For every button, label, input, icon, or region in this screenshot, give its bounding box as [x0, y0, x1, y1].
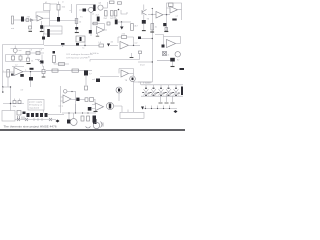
transistor Q9 — [84, 70, 88, 75]
capacitor C4 — [75, 27, 78, 30]
node H — [152, 61, 153, 62]
wire — [79, 9, 88, 11]
tick marks — [34, 118, 42, 121]
feedback wire U3 — [167, 3, 182, 10]
wire — [129, 44, 141, 46]
capacitor C9 — [115, 20, 118, 25]
capacitor C23 — [85, 86, 88, 90]
resistor R7 — [93, 22, 97, 25]
wire — [43, 110, 45, 113]
resistor R11 — [53, 56, 56, 63]
wire — [71, 4, 73, 13]
node M — [71, 91, 72, 92]
component row dark — [27, 113, 48, 117]
left box — [2, 111, 15, 122]
text box note — [28, 100, 44, 111]
wire — [118, 93, 120, 101]
wire vertical x152 — [151, 8, 153, 82]
transistor mark — [118, 89, 120, 92]
node C — [152, 14, 153, 15]
inductor L4 — [99, 44, 104, 47]
wire — [43, 66, 45, 77]
wire — [30, 72, 32, 87]
pin ticks — [146, 106, 170, 109]
capacitor C17 — [76, 43, 79, 46]
op-amp U1 — [97, 27, 105, 34]
wire — [2, 87, 4, 92]
svg-text:DIY theremin v2 LP99: DIY theremin v2 LP99 — [67, 57, 89, 60]
transistor Q15 — [142, 10, 147, 16]
transistor Q13 — [67, 120, 71, 124]
transistor Q4 — [142, 20, 146, 24]
wire — [107, 2, 109, 8]
wire — [114, 106, 122, 112]
capacitor C24 dark — [93, 119, 97, 124]
wire — [118, 21, 131, 23]
wire y59.5 — [90, 54, 140, 62]
feedback wire U6 — [12, 66, 24, 68]
wire — [14, 19, 22, 21]
capacitor C13 — [19, 56, 22, 60]
ground — [75, 32, 79, 34]
wire — [148, 14, 156, 16]
resistor R17 — [114, 11, 117, 17]
wire — [157, 60, 173, 66]
label box — [90, 98, 94, 102]
wire — [69, 113, 74, 120]
pin dots — [145, 108, 146, 109]
wire — [90, 12, 92, 36]
capacitor C12 — [12, 56, 15, 60]
small comp — [17, 111, 21, 116]
capacitor C8 — [97, 17, 100, 22]
ground — [171, 66, 175, 68]
transistor Q5 — [40, 61, 44, 64]
capacitor C20 — [162, 45, 165, 48]
component X2 — [163, 52, 167, 56]
transistor Q8 — [29, 77, 33, 81]
transistor Q6 circle — [175, 52, 180, 57]
node B — [121, 21, 122, 22]
resistor R1 — [26, 19, 29, 22]
capacitor C3 — [57, 17, 60, 22]
capacitor C22 — [30, 68, 34, 70]
resistor R4 — [75, 19, 78, 24]
node dot1 — [68, 112, 69, 113]
wire — [41, 55, 43, 63]
diode D3 — [96, 79, 100, 83]
wire — [67, 90, 76, 92]
op-amp U2 — [156, 12, 163, 19]
resistor R5 — [105, 11, 108, 17]
node J — [2, 86, 3, 87]
capacitor C10 — [163, 23, 166, 26]
speaker circle — [93, 122, 99, 128]
osc rail bottom — [6, 61, 27, 63]
resistor R6 — [111, 11, 114, 17]
wire — [58, 2, 60, 5]
svg-text:9V battery x2: 9V battery x2 — [29, 104, 43, 107]
ground — [130, 57, 134, 59]
node E — [84, 45, 85, 46]
wire — [92, 105, 96, 109]
shield box left osc — [44, 26, 62, 34]
ground T3 — [171, 102, 175, 104]
diode cell 1 — [142, 85, 150, 96]
wire — [11, 99, 20, 111]
dark label OUT — [180, 68, 185, 70]
box bottom right — [120, 112, 144, 118]
wire — [41, 21, 43, 31]
dark block — [93, 116, 97, 123]
crystal X mark — [163, 52, 167, 56]
ground — [94, 111, 98, 113]
ground — [96, 35, 99, 37]
wire — [76, 5, 78, 34]
svg-text:vr: vr — [62, 1, 64, 4]
inductor L5 — [52, 69, 58, 72]
diode D2 — [107, 44, 110, 48]
x marks on wire — [17, 118, 52, 121]
ground — [29, 30, 33, 32]
capacitor C1 — [29, 26, 32, 29]
wire vertical x10 — [10, 87, 12, 104]
bottom wire row — [15, 119, 56, 121]
node F — [133, 45, 134, 46]
wire — [141, 38, 152, 40]
capacitor hatch1 — [18, 116, 20, 120]
capacitor C2 — [40, 25, 43, 29]
capacitor C18 — [53, 51, 56, 54]
trimmer RV2 — [63, 90, 67, 94]
ground ticks — [161, 96, 173, 103]
wire — [85, 76, 87, 85]
transistor Q2 circle — [89, 7, 94, 12]
wire — [31, 22, 33, 27]
node L — [10, 103, 11, 104]
capacitor C16 — [27, 58, 30, 62]
inductor L8 — [107, 22, 110, 25]
diode D4 — [141, 107, 144, 110]
node dot3 — [82, 112, 83, 113]
diode cell 4 — [165, 85, 173, 96]
wire — [103, 7, 108, 9]
wire — [176, 43, 181, 45]
diode cell 3 — [157, 85, 165, 96]
transistor Q3 circle — [98, 5, 103, 10]
op-amp U5 — [167, 40, 176, 48]
trimmer RV1 — [13, 49, 17, 53]
wire — [121, 22, 123, 27]
wire — [71, 98, 85, 100]
feedback wire — [118, 37, 134, 46]
capacitor C21 — [20, 74, 24, 77]
op-amp U3 — [170, 7, 178, 14]
wire — [50, 20, 77, 22]
wire — [133, 82, 135, 113]
wire — [75, 104, 77, 113]
wire — [121, 10, 127, 14]
resistor R15 — [139, 51, 142, 54]
diode D5 — [31, 19, 34, 22]
resistor R3 — [57, 5, 60, 11]
op-amp U10 — [37, 16, 43, 22]
transistor Q14 circle — [70, 119, 77, 126]
wire — [61, 86, 64, 113]
resistor R8 — [131, 24, 134, 31]
wire — [23, 71, 46, 73]
ground stub — [131, 53, 133, 57]
wire — [143, 5, 145, 31]
dark glyph — [88, 107, 92, 111]
ground — [27, 63, 31, 65]
svg-text:set: set — [19, 49, 22, 52]
capacitor C6 — [110, 1, 115, 4]
capacitor C14 — [26, 52, 30, 55]
resistor R13 — [7, 70, 10, 78]
svg-text:The theremin sine project HNSE: The theremin sine project HNSE 4476 — [4, 124, 57, 128]
wire — [104, 24, 107, 31]
transistor Q1 — [83, 9, 87, 12]
capacitor C30 dark — [76, 98, 79, 101]
bus wire y45.5 — [44, 45, 99, 47]
wire — [178, 10, 182, 20]
wire y71 — [46, 70, 92, 72]
wire — [54, 63, 69, 65]
capacitor C29 — [87, 116, 90, 121]
op-amp U7 — [121, 70, 129, 77]
wire — [24, 19, 37, 21]
antenna ANT1 — [12, 16, 14, 24]
relay box K1 — [44, 4, 51, 11]
wire — [100, 76, 119, 78]
pin row wire — [142, 108, 177, 110]
op-amp U4 — [120, 42, 129, 50]
node end — [2, 91, 4, 93]
svg-text:power supply: power supply — [29, 101, 43, 104]
node +V — [118, 9, 120, 11]
transistor Q7 — [170, 58, 175, 62]
wire x75 vertical — [75, 91, 77, 113]
diode ladder bus top — [141, 84, 183, 86]
wire y48.5 — [11, 48, 45, 50]
feedback resistor R14 — [169, 3, 174, 7]
wire y62 — [138, 61, 152, 63]
diode cell 5 — [172, 85, 180, 96]
inductor L9 — [85, 98, 88, 102]
inductor L10 dark — [47, 29, 50, 37]
capacitor C25 — [181, 87, 183, 96]
capacitor C5 — [89, 30, 92, 34]
node D — [166, 14, 167, 15]
ground T2 — [165, 102, 169, 104]
feedback wire U10 — [36, 12, 50, 18]
ground T1 — [159, 102, 163, 104]
label out — [172, 19, 176, 21]
ground — [150, 31, 154, 33]
wire — [27, 55, 29, 59]
capacitor C11 — [42, 37, 45, 40]
node dot4 — [87, 112, 88, 113]
junction diamond2 — [56, 120, 60, 123]
wire — [43, 33, 45, 45]
dark x mark — [23, 112, 26, 115]
ground — [42, 76, 46, 78]
ground stub U1 — [97, 34, 99, 36]
op-amp U6 — [14, 68, 23, 76]
ground — [40, 31, 44, 33]
diode D1 — [120, 27, 124, 30]
svg-text:2M: 2M — [27, 17, 30, 19]
wire — [48, 114, 64, 116]
resistor R9 — [151, 24, 154, 31]
wire — [84, 42, 86, 46]
op-amp U9 — [63, 95, 71, 103]
inductor L6 — [72, 69, 79, 72]
wire — [43, 17, 50, 19]
transistor mark — [132, 78, 134, 81]
resistor R10 — [165, 28, 168, 31]
wire y87 — [3, 86, 11, 88]
bottom bus — [62, 112, 96, 114]
crystal bar — [80, 37, 82, 41]
node I — [30, 71, 31, 72]
op-amp U8 — [96, 103, 104, 111]
wire vertical x165 — [166, 15, 168, 30]
wire L shape — [138, 81, 152, 83]
wire — [5, 55, 7, 62]
bottom rule — [0, 129, 185, 131]
wire to ladder — [134, 82, 153, 85]
resistor R16 — [42, 70, 45, 74]
osc rail top — [6, 54, 27, 56]
arc mark — [86, 127, 91, 129]
wire — [7, 77, 9, 87]
wire — [49, 11, 51, 21]
transistor Q11 circle — [116, 87, 122, 93]
wire — [58, 10, 60, 17]
inductor L3 — [59, 63, 65, 66]
wire — [163, 8, 170, 15]
left osc row wire — [26, 52, 44, 54]
capacitor C19 — [138, 37, 141, 40]
svg-text:regulated: regulated — [29, 107, 40, 110]
capacitor hatch2 — [22, 117, 24, 120]
wire — [94, 100, 96, 105]
wire — [62, 45, 64, 47]
feedback resistor R12 — [122, 36, 127, 39]
svg-text:fo 100 kc: fo 100 kc — [90, 53, 100, 55]
svg-text:d ladder: d ladder — [143, 82, 151, 85]
capacitor C31 — [61, 43, 65, 45]
feedback wire U7 — [119, 69, 134, 77]
frame wire left — [2, 45, 4, 88]
wire — [48, 21, 62, 32]
transistor mark — [109, 104, 111, 109]
svg-text:ic4 a: ic4 a — [59, 106, 64, 108]
jack bracket — [101, 122, 104, 128]
diode cell 2 — [150, 85, 158, 96]
wire — [35, 60, 43, 65]
svg-text:ant: ant — [11, 27, 14, 30]
inverting input mark — [11, 74, 14, 76]
capacitor C7 — [118, 2, 122, 4]
node top — [152, 8, 153, 9]
feedback wire U5 — [155, 35, 181, 45]
power rail component X1 — [93, 5, 95, 12]
wire — [14, 46, 16, 55]
tick — [127, 110, 129, 113]
wire — [110, 45, 118, 47]
inductor L1 — [21, 17, 24, 22]
transistor Q12 circle — [106, 102, 113, 109]
bus wire y44.5 — [3, 44, 45, 46]
capacitor C27 — [18, 101, 21, 104]
wire — [13, 55, 21, 62]
wire — [129, 72, 134, 74]
node K — [10, 86, 11, 87]
capacitor C26 — [13, 101, 16, 104]
wire — [92, 23, 105, 25]
junction diamond — [174, 110, 178, 113]
capacitor C15 — [36, 52, 40, 55]
ground — [164, 31, 168, 33]
node dot2 — [75, 112, 76, 113]
crystal box XT1 — [76, 36, 85, 42]
ground — [142, 30, 146, 32]
wire — [50, 3, 57, 5]
wire — [77, 4, 94, 6]
svg-text:ref: ref — [21, 89, 24, 92]
svg-text:level: level — [140, 65, 145, 67]
wire y103.5 — [3, 103, 24, 105]
wire — [3, 71, 15, 73]
node G — [152, 38, 153, 39]
capacitor C28 — [81, 116, 84, 121]
diode ladder bus bottom — [141, 95, 183, 97]
transistor Q10 circle — [130, 76, 136, 82]
